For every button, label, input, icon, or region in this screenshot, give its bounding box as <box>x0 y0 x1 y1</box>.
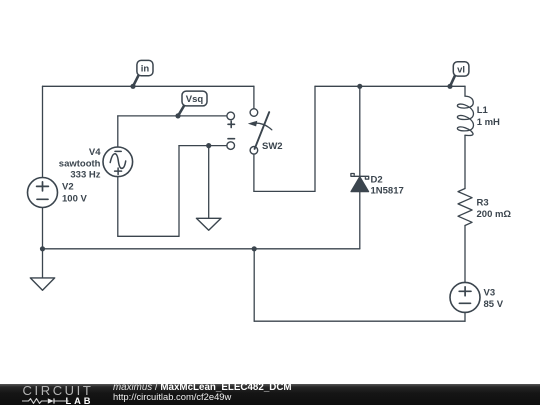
svg-text:1N5817: 1N5817 <box>371 186 404 197</box>
wire - control horizontal <box>179 145 227 147</box>
junction dot node Vsq <box>175 113 180 118</box>
control terminal + of SW2 <box>227 112 235 127</box>
footer bar <box>0 384 540 405</box>
control terminal - of SW2 <box>227 139 235 150</box>
wire middle vertical drop <box>253 249 255 321</box>
svg-text:V3: V3 <box>484 288 496 299</box>
svg-text:R3: R3 <box>477 197 489 208</box>
inductor L1 <box>457 96 473 135</box>
switch SW2 <box>248 109 272 154</box>
wire V4 loop bottom horizontal <box>118 235 179 237</box>
svg-text:100 V: 100 V <box>62 194 87 205</box>
wire SW2 top stem <box>253 86 255 108</box>
junction dot node in <box>130 84 135 89</box>
footer url line <box>113 391 231 402</box>
junction dot bottom middle <box>252 246 257 251</box>
svg-text:1 mH: 1 mH <box>477 117 500 128</box>
footer title line <box>113 382 292 393</box>
wire V3 bottom lead <box>464 312 466 321</box>
svg-text:L1: L1 <box>477 105 489 116</box>
wire Vsq horizontal to + control <box>118 115 227 117</box>
wire L1 to R3 <box>464 135 466 188</box>
diode D2 (schottky 1N5817) <box>351 174 369 192</box>
svg-text:Vsq: Vsq <box>186 94 204 105</box>
svg-text:V4: V4 <box>89 147 101 158</box>
svg-text:V2: V2 <box>62 182 74 193</box>
junction dot D2 top <box>357 84 362 89</box>
svg-text:sawtooth: sawtooth <box>59 158 101 169</box>
resistor R3 <box>458 189 472 226</box>
svg-text:SW2: SW2 <box>262 141 283 152</box>
wire top-left horizontal (node in) <box>43 85 254 87</box>
node flag in <box>133 60 153 86</box>
wire V4 loop vertical x=179 <box>178 146 180 237</box>
junction dot minus control / ground <box>206 143 211 148</box>
wire ground stem left <box>42 249 44 278</box>
ground (left) <box>30 278 54 290</box>
CircuitLab logo waveform <box>22 398 69 404</box>
svg-text:in: in <box>141 64 150 75</box>
CircuitLab logo text CIRCUIT <box>23 383 94 398</box>
wire V4 bottom lead <box>117 177 119 237</box>
junction dot bottom left <box>40 246 45 251</box>
svg-text:vl: vl <box>457 65 465 76</box>
wire jog vertical x=315 <box>314 86 316 191</box>
wire left vertical upper (V2 top lead) <box>42 86 44 177</box>
node flag vl <box>450 62 469 87</box>
wire D2 bottom lead <box>359 192 361 249</box>
wire SW2 bottom stem <box>253 154 255 191</box>
junction dot node vl <box>447 84 452 89</box>
ground (middle) <box>196 218 221 230</box>
node flag Vsq <box>178 91 207 116</box>
svg-text:333 Hz: 333 Hz <box>70 170 100 181</box>
wire jog horizontal under switch <box>254 190 315 192</box>
voltage source V2 <box>28 178 58 208</box>
svg-text:D2: D2 <box>371 175 383 186</box>
wire ground stem middle <box>208 146 210 219</box>
wire V3 top lead from R3 <box>464 226 466 283</box>
wire L1 top lead <box>464 86 466 96</box>
svg-text:200 mΩ: 200 mΩ <box>477 209 512 220</box>
wire top-right horizontal (node vl) <box>315 85 465 87</box>
wire bottom horizontal 2 <box>254 320 465 322</box>
wire bottom horizontal 1 <box>43 248 360 250</box>
voltage source V4 (sawtooth) <box>103 147 133 177</box>
wire D2 top lead <box>359 86 361 176</box>
wire left vertical lower (V2 bottom lead) <box>42 208 44 249</box>
voltage source V3 <box>450 282 480 312</box>
CircuitLab logo text LAB <box>66 396 94 405</box>
svg-text:85 V: 85 V <box>484 299 504 310</box>
wire V4 top lead <box>117 116 119 147</box>
